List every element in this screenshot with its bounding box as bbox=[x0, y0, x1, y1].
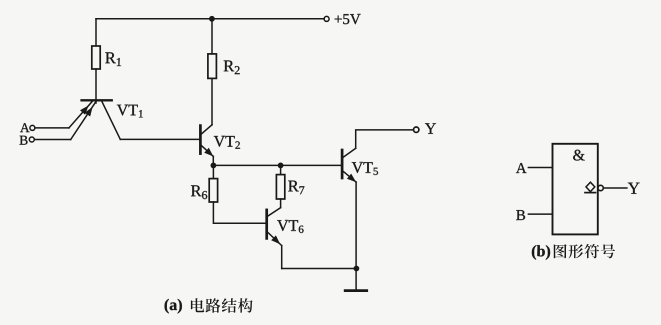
transistor VT1 multi-emitter bbox=[69, 100, 143, 139]
node top rail R2 junction bbox=[209, 16, 215, 22]
terminal input B bbox=[29, 137, 34, 142]
transistor VT6 bbox=[267, 208, 304, 246]
resistor R1 bbox=[92, 46, 100, 69]
wire gate output Y bbox=[603, 187, 627, 189]
wire top +5V rail bbox=[96, 18, 324, 20]
caption (b) graphic symbol bbox=[532, 245, 536, 260]
wire R1 to VT1 base bbox=[95, 69, 97, 103]
open-collector qualifier diamond bbox=[586, 182, 595, 191]
wire R6 top lead bbox=[212, 165, 214, 178]
wire R7 bottom to VT6 collector bbox=[280, 199, 282, 208]
wire R2 top lead bbox=[211, 19, 213, 54]
node VT2 emitter junction bbox=[211, 163, 217, 169]
wire R1 top lead bbox=[95, 19, 97, 46]
wire VT5 collector to output bbox=[356, 130, 414, 148]
transistor VT2 bbox=[200, 125, 239, 157]
node R7 junction bbox=[278, 163, 284, 169]
wire input A bbox=[35, 127, 69, 129]
wire input B bbox=[34, 139, 70, 141]
wire R6 bottom to VT6 base bbox=[213, 202, 265, 223]
wire VT5 emitter to ground bbox=[355, 182, 357, 290]
terminal +5V bbox=[324, 16, 329, 21]
terminal input A bbox=[30, 125, 35, 130]
node ground junction bbox=[354, 266, 360, 272]
resistor R7 bbox=[276, 175, 284, 199]
wire VT2 emitter down bbox=[212, 156, 214, 165]
wire bottom rail bbox=[282, 268, 357, 270]
resistor R2 bbox=[208, 54, 217, 79]
terminal output Y bbox=[414, 127, 419, 132]
resistor R6 bbox=[209, 179, 217, 202]
ground bbox=[345, 289, 367, 292]
wire emitter rail to VT5 base bbox=[213, 164, 341, 166]
inverter bubble bbox=[598, 185, 603, 190]
wire VT2 collector to R2 bbox=[211, 78, 213, 124]
wire VT1 collector to VT2 base bbox=[120, 138, 199, 140]
caption (a) circuit structure bbox=[165, 299, 169, 314]
wire R7 top lead bbox=[280, 165, 282, 174]
wire gate input B bbox=[528, 213, 552, 215]
transistor VT5 bbox=[342, 148, 378, 182]
wire VT6 emitter down bbox=[281, 246, 283, 269]
gate symbol U1 NAND open-collector box bbox=[553, 144, 598, 235]
wire gate input A bbox=[528, 167, 552, 169]
